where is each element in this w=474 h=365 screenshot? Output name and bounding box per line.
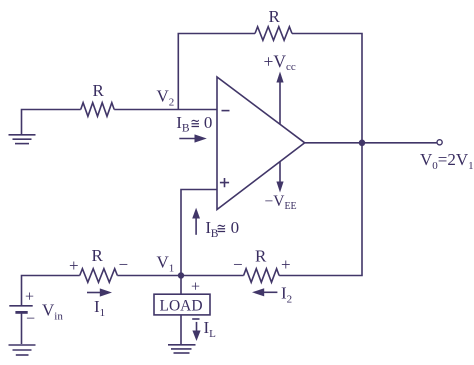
svg-text:+: +: [281, 255, 291, 274]
current I2 arrow: [252, 288, 277, 296]
node V1 junction dot: [178, 272, 184, 278]
current IB top arrow: [179, 134, 207, 142]
wire: battery to resistor R3: [22, 276, 80, 306]
wire: non-inverting input to node V1: [181, 190, 217, 276]
wire: resistor R3 to node V1: [117, 275, 181, 277]
svg-text:+Vcc: +Vcc: [264, 51, 296, 73]
current I1 arrow: [87, 288, 112, 296]
svg-text:V2: V2: [157, 87, 175, 109]
current IL arrow: [192, 322, 200, 341]
svg-text:+: +: [191, 279, 200, 296]
wire: node V1 down to LOAD: [180, 276, 182, 295]
svg-text:IL: IL: [204, 318, 217, 340]
wire: top feedback wire right segment down to output node: [292, 34, 362, 143]
resistor R1 (inverting input): [81, 103, 115, 117]
svg-text:Vin: Vin: [42, 301, 63, 323]
op-amp U1 non-inverting pin plus sign: [220, 178, 229, 187]
svg-text:−: −: [119, 255, 129, 274]
svg-text:−: −: [26, 311, 35, 328]
wire: resistor R1 to op-amp inverting input: [114, 109, 217, 111]
polarity minus sign below LOAD: [192, 318, 199, 320]
load box LOAD: [154, 294, 210, 315]
resistor R2 (feedback): [255, 27, 292, 41]
battery Vin positive plate: [9, 305, 32, 307]
svg-text:+: +: [25, 289, 34, 306]
wire: feedback tap vertical from node V2 up to top wire: [178, 34, 255, 110]
op-amp U1: [217, 77, 305, 210]
node: output junction dot: [359, 140, 366, 147]
svg-text:R: R: [255, 247, 267, 266]
svg-text:I2: I2: [281, 284, 292, 306]
ground GND3 (load): [168, 345, 196, 353]
wire: op-amp output: [305, 142, 437, 144]
svg-text:R: R: [93, 81, 105, 100]
wire: LOAD to ground GND3: [180, 315, 182, 345]
current IB bottom arrow: [192, 208, 200, 235]
resistor R4 (to output): [244, 269, 280, 283]
svg-text:−VEE: −VEE: [265, 193, 297, 212]
svg-text:LOAD: LOAD: [160, 297, 203, 314]
output terminal (open circle): [437, 140, 442, 145]
wire: node V1 to resistor R4: [181, 275, 244, 277]
svg-text:V0=2V1: V0=2V1: [420, 150, 474, 172]
svg-text:R: R: [269, 7, 281, 26]
battery Vin: [9, 306, 32, 344]
op-amp U1 inverting pin minus sign: [222, 110, 230, 112]
svg-text:R: R: [92, 246, 104, 265]
ground GND1 (inverting input reference): [9, 110, 81, 144]
svg-text:IB≅0: IB≅0: [205, 218, 239, 240]
svg-text:IB≅0: IB≅0: [176, 113, 212, 135]
svg-text:−: −: [233, 255, 243, 274]
wire: output node down to resistor R4: [279, 143, 362, 276]
ground GND2 (battery): [9, 345, 36, 355]
battery Vin negative plate: [15, 311, 27, 314]
resistor R3 (input from Vin): [80, 269, 118, 283]
supply -VEE arrow: [276, 162, 283, 193]
svg-text:V1: V1: [157, 253, 175, 275]
wire: battery to ground GND2: [21, 312, 23, 344]
svg-text:I1: I1: [94, 297, 105, 319]
svg-text:+: +: [69, 256, 79, 275]
supply +Vcc arrow: [276, 72, 283, 125]
